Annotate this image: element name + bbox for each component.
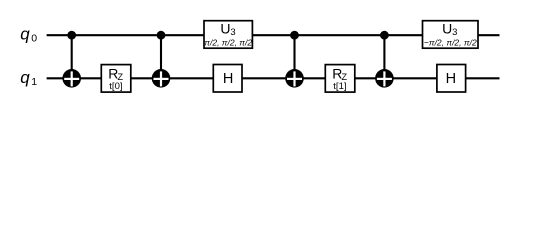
svg-text:0: 0 — [31, 33, 37, 45]
CNOT 2 vertical wire — [160, 35, 162, 78]
CNOT 4 target on q1 — [375, 69, 394, 88]
gate U3(-pi/2,pi/2,pi/2) on q0 — [423, 21, 479, 49]
CNOT 1 control dot on q0 — [67, 31, 76, 40]
svg-text:U: U — [220, 21, 230, 37]
gate U3(pi/2,pi/2,pi/2) on q0 — [204, 21, 252, 49]
svg-text:−π/2, π/2, π/2: −π/2, π/2, π/2 — [424, 37, 477, 47]
CNOT 3 target on q1 — [285, 69, 304, 88]
gate RZ t[1] on q1 — [325, 65, 355, 93]
CNOT 3 control dot on q0 — [290, 31, 299, 40]
wire q0 — [47, 34, 500, 36]
svg-text:H: H — [446, 71, 456, 87]
qubit label q1 — [20, 68, 37, 88]
svg-text:q: q — [20, 68, 30, 87]
qubit label q0 — [20, 25, 37, 45]
svg-text:H: H — [223, 71, 233, 87]
CNOT 2 target on q1 — [152, 69, 171, 88]
gate RZ t[0] on q1 — [101, 65, 131, 93]
svg-text:π/2, π/2, π/2: π/2, π/2, π/2 — [204, 37, 252, 47]
CNOT 1 vertical wire — [71, 35, 73, 78]
gate H 1 on q1 — [213, 65, 242, 93]
CNOT 2 control dot on q0 — [157, 31, 166, 40]
svg-text:t[0]: t[0] — [109, 81, 122, 92]
svg-text:t[1]: t[1] — [333, 81, 346, 92]
CNOT 4 vertical wire — [383, 35, 385, 78]
CNOT 3 vertical wire — [293, 35, 295, 78]
wire q1 — [47, 77, 500, 79]
gate H 2 on q1 — [437, 65, 466, 93]
svg-text:1: 1 — [31, 76, 37, 88]
CNOT 4 control dot on q0 — [380, 31, 389, 40]
CNOT 1 target on q1 — [62, 69, 81, 88]
svg-text:q: q — [20, 25, 30, 44]
svg-text:U: U — [442, 21, 452, 37]
